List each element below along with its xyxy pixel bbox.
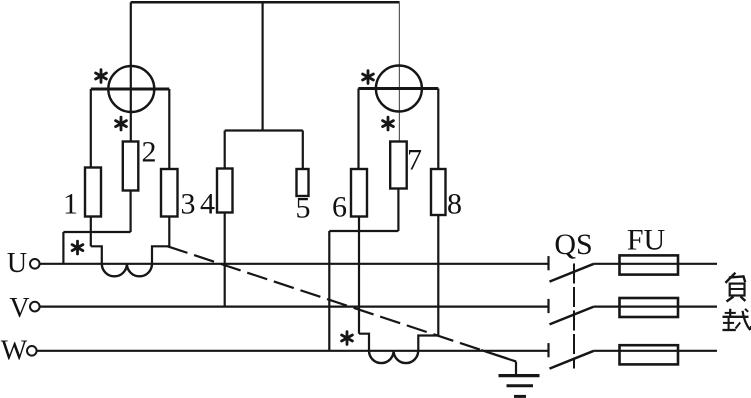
wire wattmeter PW1 voltage lead: [130, 2, 132, 141]
terminal V: [30, 302, 40, 312]
svg-text:QS: QS: [554, 228, 592, 261]
svg-text:8: 8: [447, 188, 462, 221]
switch QS pole V blade: [550, 307, 594, 325]
current coil chord PW2: [358, 87, 438, 90]
svg-text:V: V: [9, 293, 29, 324]
ground stem: [515, 362, 517, 376]
svg-text:U: U: [7, 248, 27, 279]
switch QS pole U blade: [550, 264, 594, 282]
label load (载): [723, 309, 751, 330]
dashed link wire to earth: [168, 246, 517, 361]
current transformer TA1 secondary winding: [102, 264, 152, 277]
current coil chord PW1: [91, 88, 170, 91]
ground bar 1: [499, 374, 540, 377]
wire PW2 left lead to R6: [357, 89, 359, 170]
wire R3 bottom lead: [168, 217, 170, 247]
svg-text:W: W: [1, 336, 28, 367]
svg-text:2: 2: [142, 136, 157, 169]
fuse FU2: [620, 298, 679, 317]
resistor R1: [85, 168, 101, 217]
U phase line: [40, 263, 549, 265]
label load (负): [725, 273, 735, 283]
W phase line: [37, 350, 549, 352]
fuse FU1: [620, 255, 679, 274]
resistor R3: [161, 169, 178, 217]
wire through fuse FU3: [620, 350, 679, 352]
V line after switch: [594, 306, 717, 308]
wire R5 top lead: [302, 131, 304, 170]
wire R4 bottom to V line: [224, 213, 226, 307]
wire earth connection solid end: [481, 350, 516, 362]
resistor R7: [390, 142, 407, 189]
wire CT1 secondary horizontal: [63, 231, 130, 233]
wire R7 bottom lead: [397, 189, 399, 232]
wire R4 top lead: [224, 131, 226, 169]
svg-text:3: 3: [181, 188, 196, 221]
wire PW2 right lead to R8: [437, 89, 439, 170]
wire wattmeter PW2 voltage lead (faint): [398, 2, 400, 141]
svg-text:5: 5: [296, 192, 311, 225]
wire R6 step to CT2: [359, 334, 369, 351]
wire through fuse FU1: [620, 263, 679, 265]
resistor R6: [351, 169, 367, 217]
wire CT2 horizontal to W tap: [329, 230, 398, 232]
ground bar 3: [514, 395, 526, 398]
wattmeter PW2: [376, 66, 422, 112]
svg-text:FU: FU: [627, 224, 666, 257]
current transformer TA2 secondary winding: [369, 351, 418, 363]
svg-text:6: 6: [332, 191, 347, 224]
wire R1 step to CT1: [91, 246, 102, 263]
wire through fuse FU2: [620, 306, 679, 308]
polarity asterisk PW1 upper: [96, 70, 107, 83]
polarity asterisk TA2: [342, 332, 353, 345]
polarity asterisk PW2 lower: [383, 117, 394, 130]
fuse FU3: [620, 345, 679, 364]
wire R2 bottom lead: [130, 191, 132, 233]
U line after switch: [594, 263, 717, 265]
V phase line: [40, 306, 549, 308]
svg-text:4: 4: [200, 188, 215, 221]
switch QS pole W fixed contact: [547, 343, 549, 357]
wire top bus: [131, 1, 400, 4]
switch QS mechanical link (dashed): [573, 264, 575, 369]
wire PW1 right lead to R3: [168, 89, 170, 169]
switch QS pole W blade: [550, 351, 594, 369]
svg-text:7: 7: [407, 144, 422, 177]
wire R1 bottom lead: [90, 217, 92, 247]
wire PW1 left lead to R1: [90, 89, 92, 168]
wire CT1 right lead step: [152, 246, 169, 263]
W line after switch: [594, 350, 717, 352]
polarity asterisk TA1: [72, 241, 83, 254]
polarity asterisk PW1 lower: [116, 117, 127, 130]
resistor R8: [431, 169, 446, 215]
resistor R2: [123, 142, 139, 191]
svg-text:1: 1: [63, 188, 78, 221]
resistor R5: [297, 169, 309, 196]
switch QS pole V fixed contact: [547, 299, 549, 313]
wire CT2 right lead step: [418, 336, 438, 351]
terminal U: [30, 259, 40, 269]
terminal W: [27, 346, 37, 356]
resistor R4: [217, 169, 233, 213]
wire R6 bottom lead: [358, 217, 360, 334]
switch QS pole U fixed contact: [547, 256, 549, 270]
wire middle voltage branch vertical: [262, 2, 264, 130]
wire CT2 tap to W line: [328, 231, 330, 351]
ground bar 2: [507, 384, 534, 387]
wire CT1 tap to U line: [62, 232, 64, 264]
wire R8 bottom lead: [437, 215, 439, 336]
wattmeter PW1: [108, 66, 154, 112]
polarity asterisk PW2 upper: [363, 71, 374, 84]
wire middle branch horizontal: [225, 129, 303, 131]
